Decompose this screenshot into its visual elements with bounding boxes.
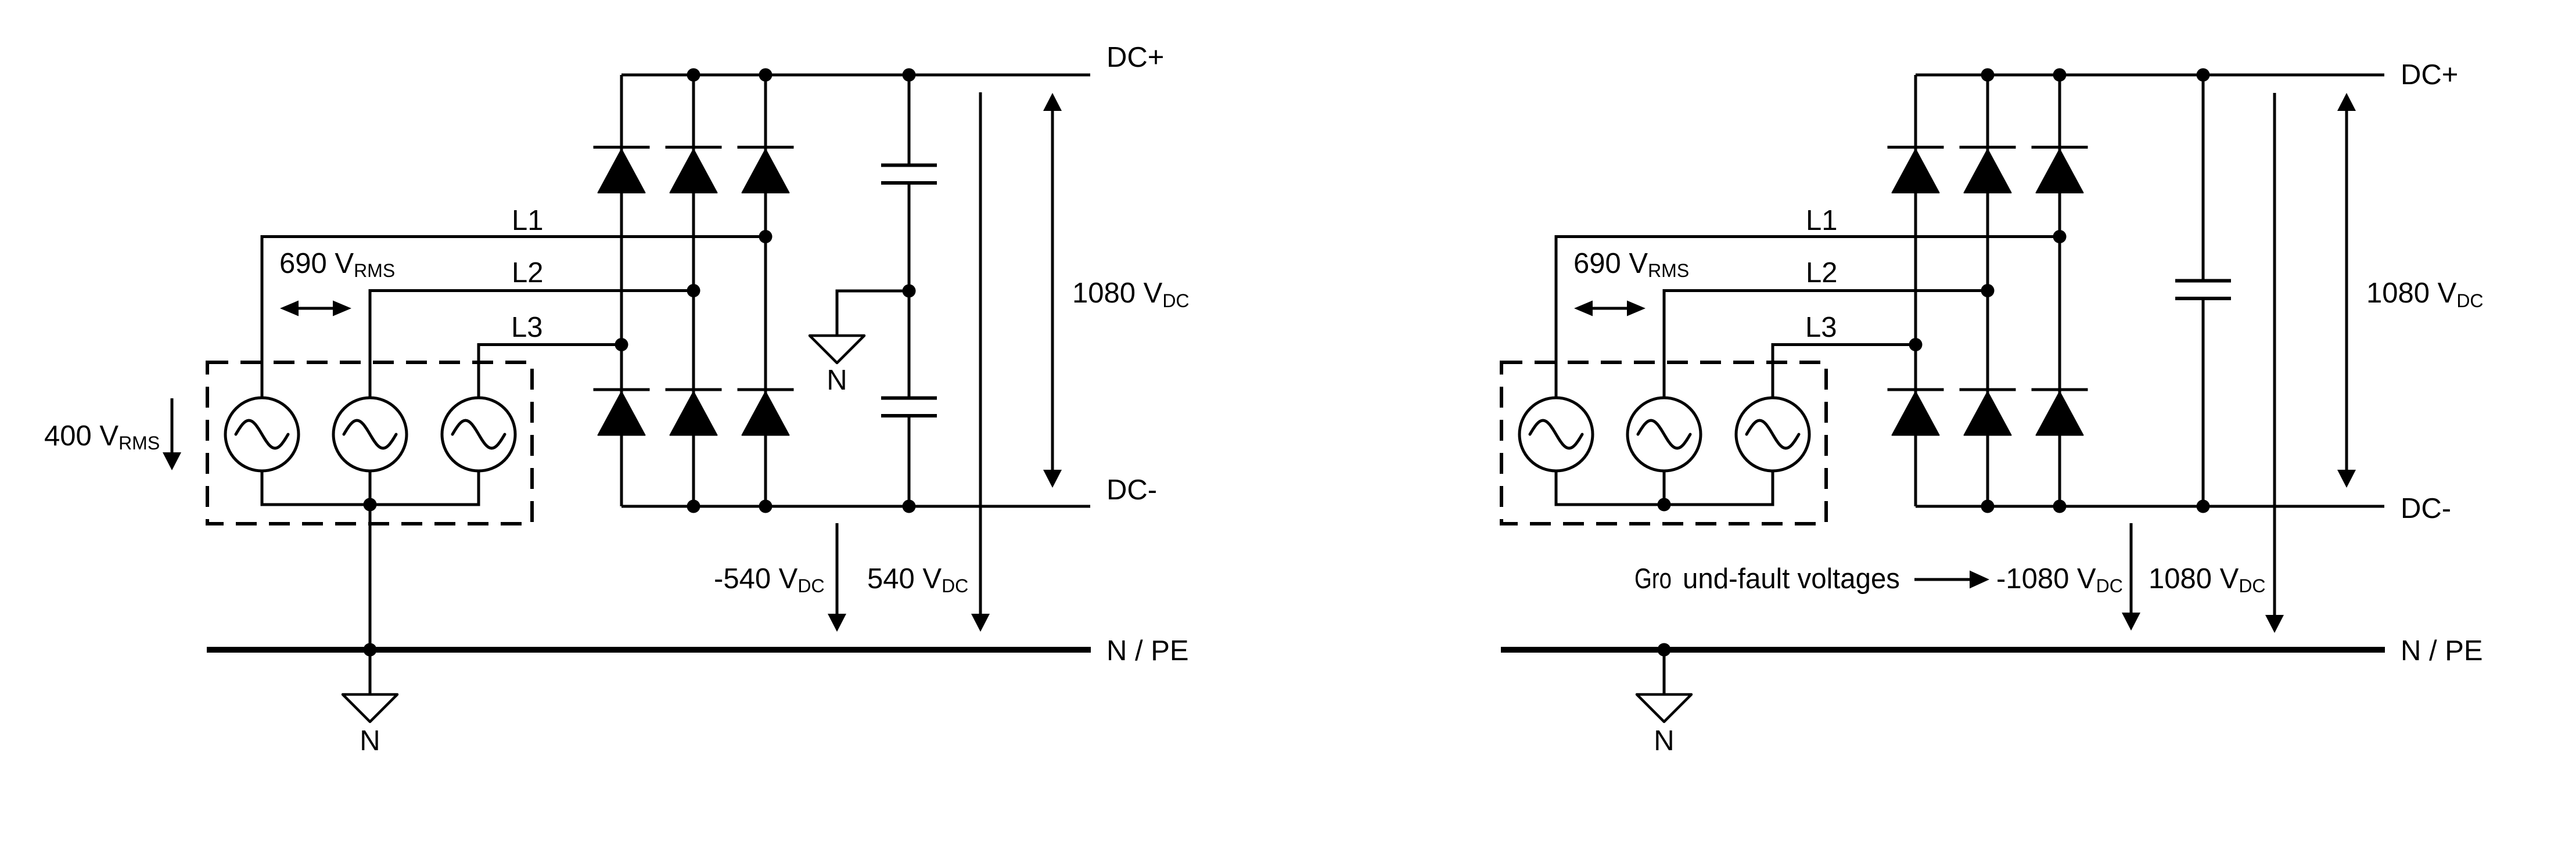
wire DC+ rail (right): [1916, 74, 2384, 77]
wire N/PE to ground (right): [1663, 650, 1666, 694]
diode D3 upper (right): [2032, 147, 2088, 193]
wire source neutral interconnect (left): [262, 471, 479, 505]
measure double arrow 1080V DC+/DC- (right): [2337, 93, 2356, 488]
junction DC+ col2 (left): [687, 69, 700, 82]
junction L3 (left): [615, 338, 628, 351]
svg-text:L3: L3: [1805, 312, 1837, 343]
wire DC- rail (left): [621, 505, 1090, 508]
junction DC+ col3 (right): [2053, 69, 2067, 82]
N/PE bus (left): [207, 647, 1091, 653]
measure arrow 1080V DC+ to N/PE (right): [2265, 93, 2284, 633]
wire DC- rail (right): [1916, 505, 2384, 508]
wire L2 (left): [370, 291, 694, 398]
svg-text:DC-: DC-: [1106, 474, 1157, 506]
AC source phase 3 (left): [442, 398, 515, 471]
wire rectifier leg 3 (right): [2058, 75, 2061, 506]
svg-text:N: N: [1654, 725, 1674, 757]
junction DC+ col2 (right): [1981, 69, 1995, 82]
junction source star point (left): [364, 498, 377, 512]
diode D5 lower (right): [1960, 390, 2016, 435]
wire neutral down to N/PE (left): [369, 505, 372, 650]
wire L3 (left): [479, 345, 621, 398]
AC source phase 1 (left): [225, 398, 299, 471]
junction source star point (right): [1658, 498, 1671, 512]
svg-text:N: N: [827, 365, 847, 396]
wire cap branch middle (left): [908, 185, 911, 397]
diode D6 lower (right): [2032, 390, 2088, 435]
ground N below N/PE (left): [343, 694, 397, 722]
diode D2 upper (right): [1960, 147, 2016, 193]
svg-text:DC+: DC+: [2401, 59, 2458, 91]
wire L2 (right): [1664, 291, 1988, 398]
diode D3 upper (left): [738, 147, 794, 193]
svg-text:L3: L3: [511, 312, 543, 343]
diode D2 upper (left): [666, 147, 722, 193]
svg-text:690 VRMS: 690 VRMS: [279, 248, 395, 281]
wire DC+ rail (left): [621, 74, 1090, 77]
wire L3 (right): [1773, 345, 1916, 398]
junction N/PE (left): [364, 643, 377, 657]
svg-text:L1: L1: [1806, 205, 1838, 236]
junction L3 (right): [1909, 338, 1923, 351]
wire midpoint to neutral ground (left): [837, 291, 909, 336]
junction DC- col2 (left): [687, 500, 700, 513]
junction DC+ cap (right): [2197, 69, 2210, 82]
svg-text:L2: L2: [512, 257, 544, 289]
svg-text:DC+: DC+: [1106, 42, 1164, 73]
wire rectifier leg 2 (left): [692, 75, 695, 506]
svg-text:N / PE: N / PE: [1106, 635, 1189, 667]
junction L1 (left): [759, 230, 773, 243]
wire cap branch lower (right): [2202, 300, 2205, 506]
AC source phase 1 (right): [1519, 398, 1593, 471]
junction DC+ cap (left): [903, 69, 916, 82]
junction capacitor midpoint (left): [903, 285, 916, 298]
capacitor C1 (upper, left): [881, 165, 937, 183]
measure arrow 690V L1-L2 (right): [1574, 301, 1646, 316]
junction DC- col3 (left): [759, 500, 773, 513]
capacitor C2 (lower, left): [881, 398, 937, 416]
wire phase2 bottom stub (left): [369, 471, 372, 505]
svg-text:1080 VDC: 1080 VDC: [2149, 563, 2266, 596]
AC source phase 2 (right): [1627, 398, 1701, 471]
svg-text:1080 VDC: 1080 VDC: [1072, 278, 1190, 311]
wire rectifier leg 3 (left): [764, 75, 767, 506]
junction N/PE (right): [1658, 643, 1671, 657]
svg-text:und-fault voltages: und-fault voltages: [1683, 563, 1900, 595]
svg-text:DC-: DC-: [2401, 493, 2451, 524]
wire L1 (right): [1556, 237, 2060, 398]
dashed box 3-phase source (right): [1501, 362, 1826, 524]
diode D4 lower (left): [594, 390, 650, 435]
wire rectifier leg 1 (right): [1914, 75, 1917, 506]
diode D5 lower (left): [666, 390, 722, 435]
diode D4 lower (right): [1888, 390, 1944, 435]
svg-text:N: N: [360, 725, 380, 757]
diode D1 upper (left): [594, 147, 650, 193]
junction L1 (right): [2053, 230, 2067, 243]
junction DC- cap (left): [903, 500, 916, 513]
arrow Ground-fault voltages pointer (right): [1914, 571, 1989, 589]
svg-text:690 VRMS: 690 VRMS: [1573, 248, 1689, 281]
svg-text:540 VDC: 540 VDC: [867, 563, 968, 596]
measure arrow 400V phase-neutral (left): [163, 398, 181, 470]
svg-text:N / PE: N / PE: [2401, 635, 2483, 667]
N/PE bus (right): [1501, 647, 2385, 653]
AC source phase 2 (left): [333, 398, 407, 471]
AC source phase 3 (right): [1736, 398, 1809, 471]
junction DC- col3 (right): [2053, 500, 2067, 513]
measure arrow 540V DC+ to N/PE (left): [971, 92, 990, 632]
junction L2 (right): [1981, 284, 1995, 297]
wire rectifier leg 2 (right): [1986, 75, 1989, 506]
measure arrow -540V DC- to N/PE (left): [828, 523, 846, 632]
measure arrow -1080V DC- to N/PE (right): [2122, 523, 2140, 631]
measure arrow 690V L1-L2 (left): [280, 301, 351, 316]
ground N below N/PE (right): [1637, 694, 1691, 722]
wire source neutral interconnect (right): [1556, 471, 1773, 505]
wire N/PE to ground (left): [369, 650, 372, 694]
svg-text:-1080 VDC: -1080 VDC: [1996, 563, 2123, 596]
wire cap branch upper (left): [908, 75, 911, 164]
wire cap branch lower (left): [908, 417, 911, 506]
measure double arrow 1080V DC+/DC- (left): [1043, 93, 1062, 488]
svg-text:400 VRMS: 400 VRMS: [44, 420, 160, 453]
wire L1 (left): [262, 237, 766, 398]
svg-text:L2: L2: [1806, 257, 1838, 289]
svg-text:Gro: Gro: [1634, 563, 1672, 595]
junction L2 (left): [687, 284, 700, 297]
svg-text:-540 VDC: -540 VDC: [714, 563, 825, 596]
capacitor C1 (right): [2175, 281, 2231, 299]
svg-text:L1: L1: [512, 205, 544, 236]
ground N at capacitor midpoint (left): [810, 336, 864, 363]
diode D6 lower (left): [738, 390, 794, 435]
diode D1 upper (right): [1888, 147, 1944, 193]
wire phase2 bottom stub (right): [1663, 471, 1666, 505]
svg-text:1080 VDC: 1080 VDC: [2366, 278, 2484, 311]
dashed box 3-phase source (left): [207, 362, 532, 524]
wire rectifier leg 1 (left): [620, 75, 623, 506]
wire cap branch upper (right): [2202, 75, 2205, 279]
junction DC+ col3 (left): [759, 69, 773, 82]
junction DC- col2 (right): [1981, 500, 1995, 513]
junction DC- cap (right): [2197, 500, 2210, 513]
